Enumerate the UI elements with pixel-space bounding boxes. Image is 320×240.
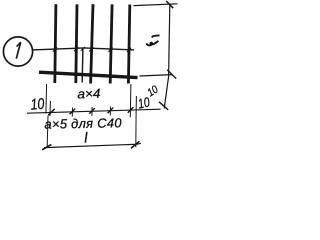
extension eA2 <box>49 101 51 116</box>
wire tick at B4 <box>109 48 113 52</box>
row A stub t2 <box>71 108 73 117</box>
bar B2 <box>76 4 77 83</box>
bar B3 <box>91 4 93 83</box>
bar B1 <box>55 4 56 83</box>
extension eB2 <box>135 96 137 114</box>
bar B4 <box>110 4 112 83</box>
callout label 1 <box>16 42 20 58</box>
svg-text:10: 10 <box>30 94 45 113</box>
row A tick t2 <box>70 109 76 115</box>
bottom chord bar <box>39 72 138 77</box>
row A tick t5 <box>128 107 134 113</box>
bottom-right tick <box>159 102 168 110</box>
dim row C line (l) <box>44 144 138 147</box>
wire tick at B2 <box>74 47 78 51</box>
mid extension line (chord level) <box>140 75 173 76</box>
row A tick t3 <box>89 108 95 114</box>
extension eB1 <box>129 84 132 117</box>
dim row A line (a x 4) <box>27 109 161 113</box>
extension eA1 <box>45 84 48 114</box>
svg-text:а×5 для С40: а×5 для С40 <box>44 115 122 131</box>
bar B5 <box>128 5 129 84</box>
row C left tick <box>42 144 51 150</box>
row C right tick <box>131 141 139 148</box>
row A tick t4 <box>108 108 114 114</box>
bar B2a (extra, для С40) <box>81 48 84 83</box>
callout circle 1 <box>3 37 32 66</box>
wire tick at B5 <box>127 48 131 52</box>
leader / wire line <box>33 48 134 50</box>
row C right end stub <box>137 142 141 145</box>
row A stub t3 <box>91 107 93 116</box>
wire tick at B2a <box>81 47 85 51</box>
extension eC2 <box>135 114 137 148</box>
wire tick at B3 <box>89 47 93 51</box>
top tick <box>166 1 173 8</box>
label l1 <box>146 41 158 45</box>
mid tick <box>167 70 176 79</box>
row A stub t4 <box>109 107 111 116</box>
top extension line <box>134 4 178 6</box>
right dimension line l1/10 <box>164 5 170 109</box>
row A tick t1 <box>48 109 54 115</box>
wire tick at B1 <box>53 47 57 51</box>
extension eC1 <box>46 116 49 147</box>
svg-text:а×4: а×4 <box>77 86 101 101</box>
